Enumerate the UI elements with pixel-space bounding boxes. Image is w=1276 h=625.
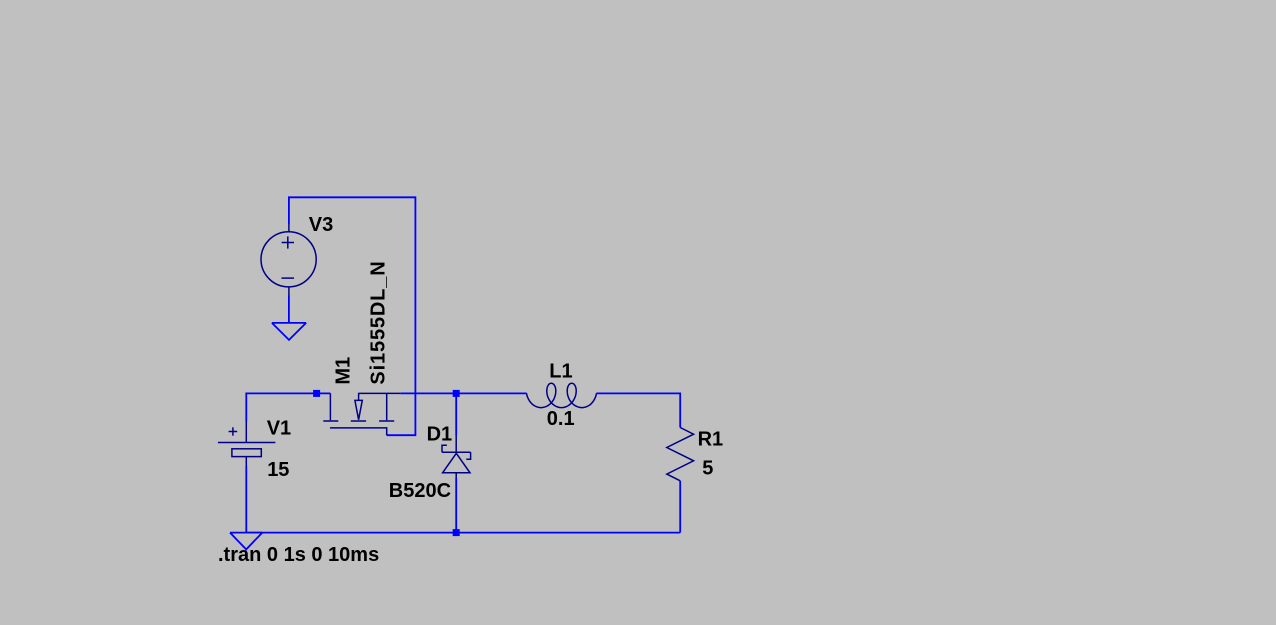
body lead [358, 393, 360, 400]
svg-text:B520C: B520C [389, 480, 451, 502]
mosfet M1 [323, 393, 400, 435]
svg-text:.tran 0 1s 0 10ms: .tran 0 1s 0 10ms [218, 544, 379, 566]
ground (V3) [272, 323, 306, 340]
svg-text:D1: D1 [427, 423, 453, 445]
body arrow [355, 400, 362, 419]
source lead [386, 393, 388, 420]
svg-text:V1: V1 [267, 417, 291, 439]
ground (V1 / bottom rail) [230, 533, 262, 550]
wire switch node rail [400, 392, 527, 394]
voltage source V3 [261, 224, 316, 296]
wire R1 to bottom rail [679, 481, 681, 533]
diode D1 (schottky) [442, 436, 471, 478]
gate bar [330, 428, 387, 435]
battery V1 [218, 427, 276, 466]
wire top loop V3+ to gate [289, 197, 416, 435]
body rail segment [358, 392, 400, 394]
svg-text:0.1: 0.1 [547, 408, 575, 430]
svg-text:Si1555DL_N: Si1555DL_N [367, 260, 389, 384]
body channel bar [351, 420, 366, 422]
svg-text:5: 5 [702, 457, 713, 479]
wire L1 to R1 [596, 393, 680, 427]
resistor R1 [667, 428, 694, 481]
inductor L1 coil [527, 383, 597, 407]
wire V1- to bottom rail [245, 466, 247, 533]
svg-text:V3: V3 [309, 214, 333, 236]
battery V1 top lead [245, 422, 247, 443]
wire D1 anode to bottom rail [455, 478, 457, 533]
svg-text:15: 15 [267, 459, 289, 481]
node B (switch node junction) [453, 390, 460, 397]
svg-text:L1: L1 [549, 361, 572, 383]
drain channel bar [323, 420, 338, 422]
node A (drain rail junction) [313, 390, 320, 397]
node C (D1 anode / bottom rail junction) [453, 529, 460, 536]
drain lead [329, 393, 331, 420]
source channel bar [379, 420, 394, 422]
bottom rail wire [246, 532, 680, 534]
wire left rail V1+ to M1 drain [246, 393, 330, 421]
svg-text:M1: M1 [333, 357, 355, 385]
wire V3- to ground [288, 296, 290, 323]
wire D1 cathode [455, 393, 457, 436]
svg-text:R1: R1 [698, 429, 724, 451]
